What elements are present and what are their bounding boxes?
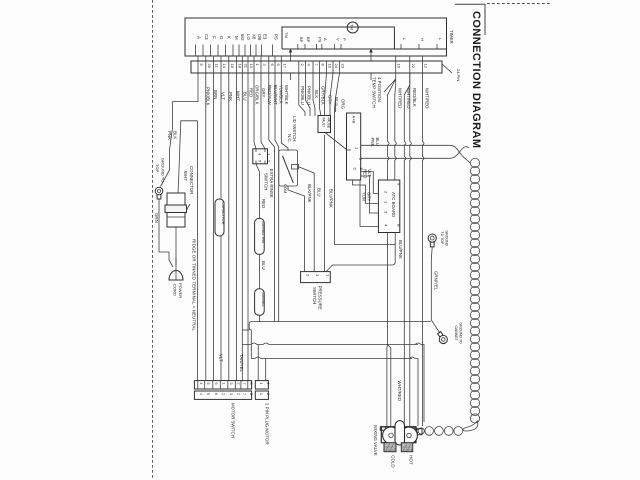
svg-text:POWER: POWER — [178, 283, 183, 298]
lid switch symbol — [279, 150, 298, 186]
svg-text:2: 2 — [266, 383, 270, 385]
svg-text:RED/YLW: RED/YLW — [267, 85, 272, 106]
valve left pair — [386, 345, 389, 428]
svg-text:7: 7 — [242, 383, 246, 385]
ATC board feeder wires — [361, 172, 379, 194]
svg-text:24: 24 — [334, 64, 339, 69]
power cord strain relief dome — [169, 271, 183, 281]
wire stub from pin21 wire — [242, 329, 249, 331]
svg-text:A: A — [323, 38, 328, 41]
wire to pressure 1 — [324, 135, 326, 272]
svg-text:LO: LO — [246, 34, 251, 40]
timer U-TM outer box — [185, 18, 447, 56]
svg-text:3: 3 — [229, 393, 233, 395]
wire pin14 — [220, 73, 222, 381]
wire pin12 run — [422, 73, 424, 426]
svg-text:G: G — [219, 36, 224, 40]
wire GRN ring to power cord — [159, 199, 173, 267]
svg-text:PRESSURE: PRESSURE — [318, 286, 323, 310]
svg-text:2: 2 — [237, 393, 241, 395]
svg-text:TAN/YEL: TAN/YEL — [239, 354, 244, 373]
svg-text:V: V — [335, 38, 340, 41]
svg-text:23: 23 — [341, 64, 346, 69]
wire pin16 — [228, 73, 230, 381]
svg-text:PNK: PNK — [167, 131, 172, 140]
svg-text:MOTOR SWITCH: MOTOR SWITCH — [231, 403, 236, 438]
svg-text:6: 6 — [214, 383, 218, 385]
timer right terminals L H L — [401, 38, 443, 49]
svg-text:TIMER: TIMER — [449, 30, 454, 44]
svg-text:B: B — [397, 224, 402, 227]
timer left terminals A C3 F G K M W2 LO X8 OB E3 PS — [196, 34, 279, 56]
strip pin ticks and numbers — [198, 56, 429, 73]
svg-text:BLU: BLU — [242, 92, 247, 101]
mixing valve body — [381, 427, 416, 443]
lower harness horizontal — [251, 357, 412, 359]
svg-text:PNK/BLU: PNK/BLU — [306, 86, 311, 105]
wire small box to A+B box — [325, 133, 347, 150]
svg-text:5: 5 — [206, 393, 210, 395]
arrow into timer left — [290, 51, 292, 80]
svg-text:GROUND: GROUND — [445, 231, 449, 247]
main left wire bundle to motor switch — [198, 73, 249, 381]
wire pin13 — [247, 73, 249, 381]
wire pin17 to lid switch — [281, 73, 288, 151]
svg-text:WHT: WHT — [183, 171, 188, 181]
wire connector to power cord — [175, 227, 177, 266]
wire lid COM down — [288, 186, 305, 272]
svg-text:15: 15 — [397, 64, 402, 69]
svg-text:BLU/PNK: BLU/PNK — [329, 189, 334, 208]
timer inner terminals BP BP PS A V P — [298, 37, 347, 49]
svg-text:CORD: CORD — [173, 284, 178, 296]
svg-text:4: 4 — [199, 393, 203, 395]
svg-text:CABINET: CABINET — [454, 326, 458, 342]
svg-text:2: 2 — [266, 393, 270, 395]
svg-text:8: 8 — [249, 383, 253, 385]
svg-text:A+B: A+B — [352, 116, 357, 124]
svg-text:PNK/BLU: PNK/BLU — [300, 86, 305, 105]
svg-text:ATC BOARD: ATC BOARD — [391, 192, 396, 217]
svg-text:12: 12 — [424, 64, 429, 69]
signal stadium — [255, 289, 265, 316]
harness twist into chain — [450, 145, 470, 163]
chain corner leaf — [463, 421, 478, 432]
svg-text:24 PIN: 24 PIN — [456, 69, 461, 81]
svg-text:TOP: TOP — [155, 164, 160, 172]
wire bus elbow to lower harness — [249, 322, 251, 359]
24 pin connector strip — [191, 61, 442, 73]
svg-text:18: 18 — [237, 64, 242, 69]
timer motor TM circle — [347, 22, 358, 33]
svg-text:M: M — [234, 36, 239, 40]
svg-text:RED/BLK: RED/BLK — [412, 88, 417, 107]
svg-text:GRY: GRY — [261, 88, 266, 98]
svg-text:EXTRA RINSE: EXTRA RINSE — [269, 169, 274, 198]
page corner bracket — [455, 4, 485, 35]
wires pin1 pin3 to extra rinse switch — [254, 73, 256, 149]
wire pin22 run — [410, 73, 412, 427]
page dashed border top — [487, 3, 552, 5]
svg-text:PS: PS — [274, 34, 279, 40]
small pause/fault box — [318, 116, 331, 133]
svg-text:OB: OB — [257, 34, 262, 40]
motor switch connector upper — [194, 381, 251, 389]
24 pin label + leader — [442, 64, 452, 73]
svg-text:P: P — [342, 38, 347, 41]
svg-text:RED: RED — [363, 169, 368, 178]
wire GRN/YEL ground — [431, 247, 440, 333]
svg-text:GRN: GRN — [154, 213, 159, 223]
svg-text:SWITCH: SWITCH — [312, 287, 317, 304]
svg-text:WHT/BLK: WHT/BLK — [284, 85, 289, 105]
signal sw stadium — [255, 218, 265, 254]
2 pin plug connector lower — [255, 391, 268, 399]
wire BLU between signal boxes — [259, 254, 261, 288]
svg-text:C3: C3 — [204, 34, 209, 40]
svg-text:14: 14 — [222, 64, 227, 69]
wire pin6 to bus — [269, 73, 275, 322]
svg-text:CONNECTOR: CONNECTOR — [189, 166, 194, 194]
svg-text:COLD: COLD — [391, 455, 396, 467]
svg-text:PS: PS — [318, 37, 323, 43]
svg-text:TEMP SWITCH: TEMP SWITCH — [372, 77, 377, 108]
svg-text:FAULT: FAULT — [322, 118, 326, 128]
arrow into timer right — [370, 51, 372, 80]
svg-text:HOT: HOT — [409, 455, 414, 465]
svg-text:PAUSE: PAUSE — [327, 118, 331, 129]
svg-text:1: 1 — [259, 393, 263, 395]
svg-text:2: 2 — [237, 383, 241, 385]
wire ATC pin B to pressure switch pin 1 — [326, 233, 395, 272]
wire pin21 — [241, 73, 243, 381]
wires 2 pin plug to valve harness — [242, 343, 418, 345]
ATC board box — [378, 180, 399, 233]
wire RED extra rinse to signal sw — [256, 164, 260, 219]
svg-text:MIXING VALVE: MIXING VALVE — [373, 425, 378, 455]
svg-text:F: F — [212, 36, 217, 39]
svg-text:TM: TM — [284, 32, 289, 38]
wire pin5 to ground top — [161, 73, 199, 187]
wire pin20 run — [205, 73, 207, 381]
wire junction drop to motor pin4 — [197, 121, 199, 381]
svg-text:PNK: PNK — [370, 138, 375, 147]
connector block — [167, 193, 185, 227]
motor switch connector lower — [194, 391, 251, 399]
svg-text:CAPACITOR: CAPACITOR — [221, 202, 226, 225]
wire color labels row under strip — [206, 85, 430, 110]
ring terminal ground to top (left) — [155, 187, 163, 195]
svg-text:WHT/RED: WHT/RED — [397, 381, 402, 402]
wire to pressure 3 — [299, 167, 315, 272]
svg-text:BLK: BLK — [173, 131, 178, 139]
svg-text:GRY: GRY — [367, 192, 372, 202]
svg-text:WHT/RED: WHT/RED — [425, 88, 430, 109]
svg-text:6: 6 — [214, 393, 218, 395]
svg-text:7: 7 — [242, 393, 246, 395]
svg-text:K: K — [227, 36, 232, 39]
valve mounting ears — [380, 427, 385, 431]
water level switch A+B box — [347, 113, 361, 180]
valve cold port — [384, 443, 396, 452]
wires pins 2,4,7,8 down — [299, 73, 305, 116]
svg-text:GROUND TO: GROUND TO — [459, 323, 463, 345]
svg-text:SWITCH: SWITCH — [264, 173, 269, 190]
svg-text:BLK/PNK: BLK/PNK — [307, 184, 312, 203]
wire signal to bus — [259, 315, 261, 321]
svg-text:YLW: YLW — [362, 192, 367, 202]
svg-text:BLU: BLU — [317, 188, 322, 197]
wires 10 24 23 diagonal — [325, 73, 327, 116]
svg-text:17: 17 — [282, 64, 287, 69]
wire pin22 split — [404, 73, 410, 427]
timer inner box — [282, 27, 394, 49]
svg-text:C: C — [353, 168, 358, 171]
chain horizontal run — [413, 427, 463, 436]
wire pin11 — [212, 73, 214, 381]
wire connector WHT up-over to motor switch — [178, 121, 198, 193]
valve left solenoid — [383, 427, 400, 444]
svg-text:TO TOP: TO TOP — [440, 232, 444, 246]
squiggles on harness right — [415, 343, 424, 422]
svg-text:W2: W2 — [240, 34, 245, 41]
svg-text:21: 21 — [243, 64, 248, 69]
valve hot port — [401, 443, 412, 452]
svg-text:BLK: BLK — [314, 90, 319, 98]
wire pin18 — [235, 73, 237, 381]
svg-text:10: 10 — [328, 64, 333, 69]
svg-text:22: 22 — [411, 64, 416, 69]
svg-text:H: H — [420, 38, 425, 41]
extra rinse switch box — [253, 149, 268, 164]
svg-text:ORG: ORG — [341, 99, 346, 110]
svg-text:2 PIN PLUG MOTOR: 2 PIN PLUG MOTOR — [265, 403, 270, 445]
capacitor stadium on wires — [215, 199, 224, 236]
ground to top ring (right) — [428, 234, 436, 242]
svg-text:3: 3 — [229, 383, 233, 385]
svg-text:WHT/RED: WHT/RED — [398, 88, 403, 109]
svg-text:TM: TM — [350, 24, 355, 30]
svg-text:1: 1 — [259, 383, 263, 385]
svg-text:5: 5 — [206, 383, 210, 385]
svg-text:X8: X8 — [252, 34, 257, 40]
page dashed border left — [152, 0, 154, 480]
valve right solenoid — [401, 427, 418, 444]
svg-text:4: 4 — [199, 383, 203, 385]
svg-text:4 POSITION: 4 POSITION — [377, 77, 382, 102]
svg-text:1: 1 — [222, 393, 226, 395]
svg-text:COM: COM — [283, 184, 288, 193]
svg-text:CONNECTION DIAGRAM: CONNECTION DIAGRAM — [470, 11, 482, 148]
svg-text:RED: RED — [261, 199, 266, 208]
svg-text:20: 20 — [207, 64, 212, 69]
svg-text:GROUND TO: GROUND TO — [161, 158, 166, 182]
2 pin plug connector upper — [255, 381, 268, 389]
harness pair wires from A+B to twist — [361, 144, 450, 146]
svg-text:RED: RED — [248, 88, 253, 97]
svg-text:1: 1 — [222, 383, 226, 385]
wire 2 pin plug pin1 up — [257, 345, 259, 381]
ground to cabinet ring — [439, 335, 447, 343]
svg-text:BLU: BLU — [261, 261, 266, 270]
svg-text:SIGNAL: SIGNAL — [261, 292, 266, 307]
svg-text:ORG/BLK: ORG/BLK — [255, 85, 260, 105]
valve tongue arch — [395, 421, 405, 445]
svg-text:N.C.: N.C. — [287, 134, 292, 143]
svg-text:BLU/PNK: BLU/PNK — [398, 240, 403, 259]
svg-text:BP: BP — [299, 37, 304, 43]
svg-text:E3: E3 — [263, 34, 268, 40]
svg-text:PNK/BLK: PNK/BLK — [206, 87, 211, 106]
wire pin15 to ATC pin9 with jogs — [395, 73, 397, 180]
horizontal bus wire — [252, 321, 431, 323]
svg-text:A: A — [197, 36, 202, 39]
svg-text:16: 16 — [230, 64, 235, 69]
wire pin15 split to valve left — [388, 79, 396, 345]
pressure switch box — [301, 272, 331, 283]
svg-text:RIDGE OR TINNED TERMINAL = NEU: RIDGE OR TINNED TERMINAL = NEUTRAL — [192, 239, 197, 332]
valve right tab to chain — [416, 429, 422, 435]
svg-text:VLT: VLT — [219, 354, 224, 362]
chain vertical run — [470, 158, 479, 423]
svg-text:13: 13 — [249, 64, 254, 69]
wire pin9 to bus — [275, 73, 279, 322]
svg-text:BP: BP — [306, 37, 311, 43]
svg-text:GRN/YEL: GRN/YEL — [434, 271, 439, 291]
timer inner bus line — [282, 48, 447, 50]
svg-text:8: 8 — [249, 393, 253, 395]
svg-text:SIGNAL SW.: SIGNAL SW. — [261, 221, 266, 244]
